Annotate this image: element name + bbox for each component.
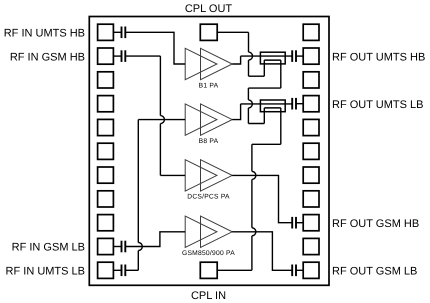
wire CPL OUT pad to CP1 coupled port (hops B1 output wire) (217, 31, 248, 33)
pad NC pad L8 (98, 191, 114, 207)
capacitor C4 (RF IN UMTS LB) (113, 269, 121, 271)
pad CPL OUT (top centre) (200, 24, 217, 40)
coupler CP2 coupled line (264, 107, 281, 109)
coupler CP2 (UMTS LB) main line (241, 103, 293, 105)
pad NC pad R10 (303, 238, 319, 254)
capacitor C2 (RF IN GSM HB) (113, 55, 121, 57)
amplifier DCS/PCS PA (185, 160, 217, 191)
pad RF IN UMTS LB pad (98, 262, 114, 278)
pad RF OUT UMTS LB pad (303, 96, 319, 112)
amplifier B8 PA (185, 104, 217, 135)
wire DCS/PCS PA output to RF OUT GSM HB (232, 175, 292, 222)
wire RF IN GSM LB to GSM850/900 PA input (125, 232, 185, 247)
pad NC pad L5 (98, 119, 114, 135)
svg-text:DCS/PCS PA: DCS/PCS PA (187, 194, 230, 201)
pad RF OUT GSM LB pad (303, 262, 319, 278)
pad NC pad L4 (98, 96, 114, 112)
svg-text:RF OUT UMTS HB: RF OUT UMTS HB (332, 51, 425, 63)
capacitor C7 (RF OUT GSM HB) (291, 217, 293, 229)
wire GSM850/900 PA output to RF OUT GSM LB (232, 232, 292, 270)
capacitor C5 (RF OUT UMTS HB) (291, 50, 293, 62)
svg-text:RF OUT GSM HB: RF OUT GSM HB (332, 218, 419, 230)
svg-text:RF IN UMTS HB: RF IN UMTS HB (4, 28, 85, 40)
coupler CP1 coupled line (264, 59, 281, 61)
wire CP2 coupled port to CPL IN pad (hops DCS and GSM output wires) (280, 108, 282, 144)
svg-text:RF IN GSM HB: RF IN GSM HB (10, 51, 85, 63)
svg-text:RF IN GSM LB: RF IN GSM LB (12, 242, 85, 254)
pad NC pad R8 (303, 191, 319, 207)
pad CPL IN (bottom centre) (200, 262, 217, 278)
wire RF IN UMTS LB to B8 PA input (vertical, hops GSM LB input wire) (125, 269, 138, 271)
pad RF IN UMTS HB pad (98, 24, 114, 40)
amplifier B1 PA (185, 48, 217, 79)
capacitor C3 (RF IN GSM LB) (113, 246, 121, 248)
package outline (module boundary) (89, 17, 329, 286)
pad NC pad R3 (303, 72, 319, 88)
pad NC pad R5 (303, 119, 319, 135)
pad NC pad R6 (303, 143, 319, 159)
wire B8 PA output to coupler CP2 (232, 104, 240, 120)
pad NC pad L3 (98, 72, 114, 88)
coupler CP2 body (260, 100, 285, 112)
pad NC pad R1 (303, 24, 319, 40)
svg-text:B8 PA: B8 PA (199, 138, 219, 145)
svg-text:CPL IN: CPL IN (191, 290, 226, 302)
pad RF IN GSM LB pad (98, 238, 114, 254)
svg-text:CPL OUT: CPL OUT (185, 3, 233, 15)
svg-text:RF IN UMTS LB: RF IN UMTS LB (6, 266, 85, 278)
svg-text:GSM850/900 PA: GSM850/900 PA (182, 250, 235, 257)
pad NC pad R7 (303, 167, 319, 183)
wire RF IN UMTS HB to B1 PA input (125, 32, 185, 64)
wire B1 PA output to coupler CP1 (232, 56, 240, 64)
pad RF OUT GSM HB pad (303, 215, 319, 231)
capacitor C6 (RF OUT UMTS LB) (291, 98, 293, 110)
pad NC pad L6 (98, 143, 114, 159)
wire CP1 coupled port to CP2 coupled port (hops B8 output wire) (280, 60, 282, 88)
capacitor C1 (RF IN UMTS HB) (113, 31, 121, 33)
wire RF IN GSM HB to DCS/PCS PA input (vertical, hops B8 input wire) (125, 55, 160, 57)
pad NC pad L7 (98, 167, 114, 183)
capacitor C8 (RF OUT GSM LB) (291, 265, 293, 277)
svg-text:B1 PA: B1 PA (199, 82, 219, 89)
svg-text:RF OUT UMTS LB: RF OUT UMTS LB (332, 99, 423, 111)
amplifier GSM850/900 PA (185, 216, 217, 247)
pad RF OUT UMTS HB pad (303, 48, 319, 64)
svg-text:RF OUT GSM LB: RF OUT GSM LB (332, 266, 417, 278)
pad RF IN GSM HB pad (98, 48, 114, 64)
pad NC pad L9 (98, 215, 114, 231)
coupler CP1 body (260, 52, 285, 64)
coupler CP1 (UMTS HB) main line (241, 55, 293, 57)
